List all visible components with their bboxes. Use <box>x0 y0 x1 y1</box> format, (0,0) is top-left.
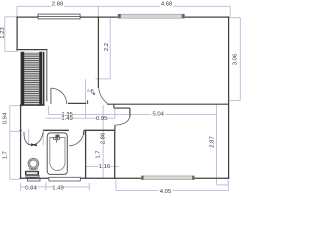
svg-text:2.2: 2.2 <box>104 43 110 51</box>
svg-text:0.84: 0.84 <box>25 185 37 191</box>
svg-text:3.06: 3.06 <box>232 53 238 65</box>
svg-text:5.04: 5.04 <box>152 112 164 118</box>
svg-text:2.86: 2.86 <box>101 132 107 144</box>
svg-text:0.95: 0.95 <box>96 116 108 122</box>
svg-text:2.87: 2.87 <box>209 136 215 147</box>
svg-text:1.16: 1.16 <box>99 164 111 170</box>
svg-text:1.23: 1.23 <box>0 27 6 39</box>
svg-text:1.7: 1.7 <box>95 150 101 158</box>
svg-text:1.7: 1.7 <box>2 151 8 159</box>
svg-text:4.68: 4.68 <box>161 1 173 7</box>
svg-text:1.49: 1.49 <box>52 185 63 191</box>
svg-text:0.94: 0.94 <box>2 112 8 124</box>
svg-text:2.88: 2.88 <box>52 1 64 7</box>
svg-text:1.49: 1.49 <box>61 116 72 122</box>
svg-text:4.05: 4.05 <box>160 189 172 195</box>
